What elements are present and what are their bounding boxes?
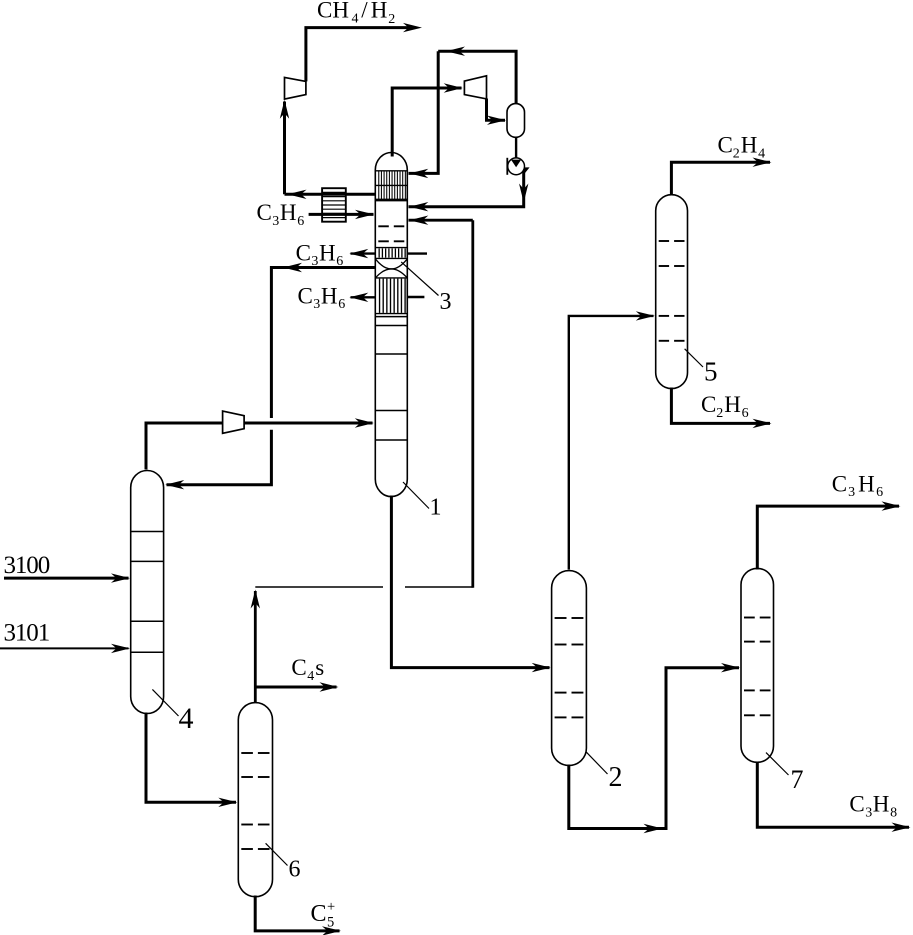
- wire column C4 overhead through compressor K2 to column C1: [146, 418, 374, 469]
- wire column C1 bottoms to column C2: [391, 496, 550, 673]
- wire C3H6 lower side draw from column C1: [349, 293, 424, 302]
- wire column C7 bottoms C3H8 product: [757, 762, 910, 832]
- svg-text:H: H: [371, 0, 388, 23]
- wire compressor K1 discharge to knockout drum: [487, 99, 507, 125]
- svg-text:3: 3: [848, 485, 855, 500]
- svg-text:4: 4: [758, 146, 765, 161]
- wire column C6 bottoms C5+ product: [255, 896, 341, 935]
- svg-text:C: C: [296, 240, 311, 265]
- wire column C2 overhead to column C5: [569, 311, 655, 569]
- svg-text:2: 2: [609, 762, 623, 793]
- column C1 distributor element 3 (bowtie arcs): [376, 259, 407, 277]
- svg-text:5: 5: [704, 357, 718, 387]
- wire knockout drum bottom to pump: [511, 137, 521, 167]
- wire column C1 overhead to expander: [280, 100, 376, 199]
- leader line and number 1: [403, 482, 442, 521]
- column C5 tray dashes: [659, 241, 685, 341]
- svg-text:1: 1: [430, 495, 442, 521]
- svg-text:H: H: [873, 792, 890, 817]
- svg-text:s: s: [315, 655, 324, 680]
- compressor K2 (trapezoid): [223, 411, 245, 433]
- svg-text:+: +: [327, 899, 335, 915]
- wire C3H6 upper side draw from column C1: [349, 249, 427, 258]
- label C3H6 product: [832, 471, 883, 500]
- svg-text:4: 4: [307, 669, 314, 684]
- svg-text:5: 5: [327, 915, 334, 931]
- svg-text:C: C: [849, 792, 864, 817]
- svg-text:C: C: [701, 392, 716, 417]
- column C4 (absorber) shell: [131, 471, 164, 714]
- label C2H6: [701, 392, 749, 421]
- svg-text:6: 6: [742, 406, 749, 421]
- column C7 (C3 splitter) shell: [741, 568, 774, 762]
- wire column C2 bottoms to column C7: [569, 663, 740, 833]
- column C1 packing band C: [375, 278, 407, 314]
- svg-text:8: 8: [890, 805, 897, 820]
- svg-text:4: 4: [179, 702, 194, 735]
- column C6 (debutanizer) shell: [238, 703, 272, 897]
- svg-text:2: 2: [716, 406, 723, 421]
- wire column C4 bottoms to column C6: [146, 713, 237, 808]
- heat exchanger / C3H6 chiller (hatched box): [322, 188, 346, 222]
- label C3H8: [849, 792, 897, 821]
- svg-text:H: H: [280, 200, 297, 225]
- svg-text:CH: CH: [317, 0, 349, 23]
- wire column C6 overhead recycle (thin) to column C1: [255, 216, 472, 588]
- svg-text:7: 7: [791, 765, 804, 794]
- column C4 section lines: [131, 532, 164, 653]
- wire C3H6 refrigerant feed through chiller to column C1: [309, 210, 374, 219]
- compressor K1 (trapezoid): [464, 76, 486, 99]
- column C2 tray dashes: [555, 618, 584, 717]
- wire column C5 overhead C2H4 product: [671, 158, 771, 196]
- column C7 tray dashes: [744, 618, 771, 716]
- column C1 tray dashes: [378, 226, 404, 241]
- leader line and number 6: [266, 843, 301, 882]
- column C1 packing band B: [375, 248, 407, 259]
- svg-text:3: 3: [313, 297, 320, 312]
- expander E1 (trapezoid): [285, 77, 306, 99]
- svg-text:H: H: [321, 283, 338, 308]
- column C2 (deethanizer) shell: [552, 571, 587, 766]
- svg-text:2: 2: [733, 146, 740, 161]
- leader line and number 5: [685, 349, 718, 387]
- column C1 (demethanizer) shell: [375, 153, 407, 497]
- svg-text:C: C: [291, 655, 306, 680]
- label C5+: [311, 899, 336, 931]
- svg-text:C: C: [311, 901, 327, 927]
- svg-text:H: H: [319, 240, 336, 265]
- svg-text:6: 6: [336, 254, 343, 269]
- wire column C6 riser and C4s product: [251, 590, 339, 704]
- svg-text:H: H: [724, 392, 741, 417]
- svg-text:3100: 3100: [4, 552, 50, 579]
- svg-text:3101: 3101: [4, 620, 50, 647]
- wire column C5 bottoms C2H6 product: [671, 388, 771, 429]
- label C2H4: [718, 133, 766, 162]
- column C5 (C2 splitter) shell: [656, 195, 688, 389]
- wire CH4/H2 product from expander: [306, 23, 422, 82]
- wire column C1 top vapour to compressor K1: [392, 83, 463, 156]
- wire column C7 overhead C3H6 product: [757, 501, 900, 569]
- wire column C1 liquid to column C4 top: [165, 263, 375, 490]
- leader line and number 2: [586, 752, 622, 793]
- leader line and number 3: [401, 262, 451, 315]
- svg-text:6: 6: [297, 214, 304, 229]
- svg-text:3: 3: [311, 254, 318, 269]
- svg-text:6: 6: [876, 485, 883, 500]
- svg-text:H: H: [741, 133, 758, 158]
- svg-text:3: 3: [440, 289, 452, 315]
- svg-text:C: C: [257, 200, 272, 225]
- label CH4/H2: [317, 0, 395, 27]
- svg-text:C: C: [298, 283, 313, 308]
- pump P1 (circle symbol): [507, 158, 524, 175]
- label C3H6 upper side draw: [296, 240, 344, 269]
- wire feed 3100 into column C4: [4, 573, 130, 582]
- wire knockout drum top recycle back to column C1: [409, 47, 517, 179]
- svg-text:3: 3: [865, 805, 872, 820]
- svg-text:3: 3: [272, 214, 279, 229]
- wire pump discharge down into column C1: [409, 167, 530, 211]
- svg-text:6: 6: [289, 857, 301, 883]
- svg-text:/: /: [361, 0, 368, 23]
- svg-text:C: C: [832, 471, 847, 496]
- pump inlet arrowhead: [511, 160, 521, 168]
- knockout drum V1: [507, 104, 525, 138]
- svg-text:2: 2: [388, 12, 395, 27]
- svg-text:C: C: [718, 133, 733, 158]
- leader line and number 7: [766, 753, 804, 794]
- wire feed 3101 into column C4: [0, 644, 130, 653]
- column C6 tray dashes: [241, 753, 269, 849]
- label C3H6 lower side draw: [298, 283, 346, 312]
- label C4s: [291, 655, 324, 684]
- column C1 packing band A: [375, 171, 407, 200]
- svg-text:6: 6: [338, 297, 345, 312]
- svg-text:4: 4: [352, 11, 359, 26]
- svg-text:H: H: [858, 471, 875, 496]
- label C3H6 feed (chiller inlet): [257, 200, 305, 229]
- leader line and number 4: [152, 689, 193, 735]
- column C1 section lines: [375, 317, 407, 440]
